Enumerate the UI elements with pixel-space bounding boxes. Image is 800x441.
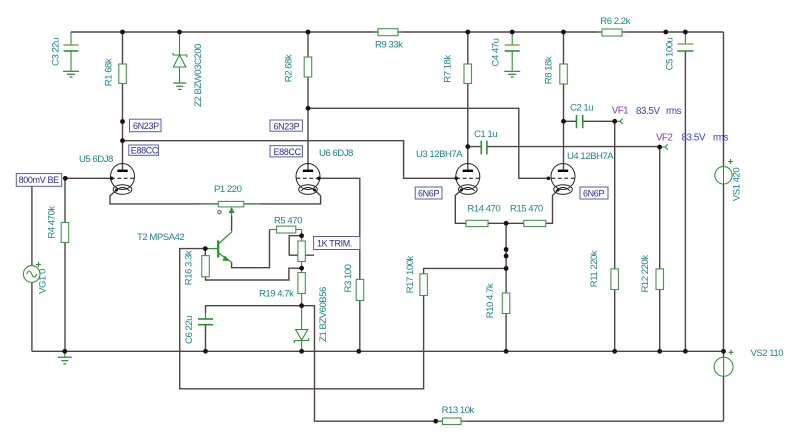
resistor R15 (524, 220, 546, 226)
box 6N6P (U4) (580, 187, 608, 199)
box E88CC (U5) (129, 145, 159, 156)
box E88CC (U6) (270, 146, 302, 157)
wire center node column to bottom rail (505, 223, 507, 351)
tube U4 12BH7A (551, 164, 575, 195)
svg-text:Z2 BZW03C200: Z2 BZW03C200 (193, 44, 204, 107)
svg-text:6N6P: 6N6P (583, 189, 604, 199)
trimmer 1K (298, 236, 305, 269)
source VS2 (714, 350, 733, 377)
resistor R1 (119, 64, 127, 84)
svg-text:R5 470: R5 470 (274, 216, 302, 227)
capacitor C5 (677, 32, 693, 51)
svg-text:R19 4.7k: R19 4.7k (259, 289, 294, 300)
resistor R9 (373, 29, 403, 36)
svg-text:R3 100: R3 100 (343, 264, 354, 292)
tube U6 6DJ8 (296, 164, 320, 195)
svg-text:R17 100k: R17 100k (405, 255, 416, 293)
wire T2 emitter to R5 left (232, 230, 270, 268)
svg-text:VF1: VF1 (612, 106, 628, 117)
resistor R4 (61, 223, 68, 243)
svg-text:VS1 420: VS1 420 (732, 168, 743, 201)
resistor R13 (438, 418, 467, 425)
svg-text:6N23P: 6N23P (133, 121, 159, 131)
resistor R6 (597, 29, 627, 36)
transistor T2 MPSA42 (205, 232, 231, 262)
wire R4 column (64, 178, 66, 351)
resistor R16 (202, 256, 210, 277)
svg-text:E88CC: E88CC (131, 146, 159, 156)
svg-text:VG1 0: VG1 0 (37, 269, 48, 294)
resistor R11 (611, 269, 619, 290)
tie VF2 (662, 144, 668, 149)
wire center node to R17 top (424, 268, 507, 273)
box 6N6P (U3) (415, 187, 442, 199)
wire U5 cathode to P1 left (110, 190, 218, 204)
svg-text:E88CC: E88CC (274, 147, 302, 157)
ground (C3) (63, 71, 79, 77)
svg-text:C3 22u: C3 22u (51, 38, 62, 66)
wire R1/U5 plate column (122, 32, 124, 171)
svg-text:VF2: VF2 (656, 133, 672, 144)
svg-text:800mV BE: 800mV BE (19, 175, 60, 185)
wire trimmer wiper tap (289, 236, 314, 256)
resistor R19 (298, 268, 305, 306)
svg-text:R8 18k: R8 18k (544, 56, 555, 84)
svg-text:VS2 110: VS2 110 (751, 348, 784, 359)
wire P1 wiper to T2 collector (231, 216, 233, 231)
wire Z1 node to R13 to VS2 minus loop (302, 306, 724, 422)
svg-text:R9 33k: R9 33k (375, 40, 403, 51)
wire R14 right to center node (488, 222, 524, 224)
tube U5 6DJ8 (111, 164, 135, 195)
wire VG1 column (31, 178, 33, 351)
capacitor C4 (505, 32, 520, 71)
wire R11 column: VF1 to bottom rail (614, 121, 616, 351)
svg-text:U6 6DJ8: U6 6DJ8 (319, 148, 353, 159)
svg-text:C5 100u: C5 100u (665, 37, 676, 70)
resistor R10 (502, 293, 510, 314)
resistor R7 (464, 64, 472, 84)
wire P1 right to U6 cathode (244, 190, 321, 204)
wire bottom 0V rail (32, 350, 724, 352)
wire R19-Z1 node to C6 top (206, 306, 302, 313)
svg-text:R6 2.2k: R6 2.2k (600, 16, 630, 27)
resistor R17 (420, 274, 428, 296)
wire T2 base to R17 bottom feedback loop (180, 249, 424, 389)
tie VF1 (617, 119, 623, 124)
zener Z2 (173, 32, 187, 83)
svg-text:R10 4.7k: R10 4.7k (485, 283, 496, 318)
wire R12 column: VF2 to bottom rail (659, 147, 661, 351)
wire C1 node row: U3 plate to VF2 (468, 146, 660, 148)
svg-text:R4 470k: R4 470k (46, 206, 57, 239)
svg-text:U5 6DJ8: U5 6DJ8 (79, 154, 113, 165)
capacitor C3 (64, 32, 79, 71)
svg-text:P1 220: P1 220 (214, 184, 242, 195)
wire R8/U4 plate column (563, 32, 565, 171)
wire U6 plate to U4 grid (308, 108, 548, 178)
svg-text:R14 470: R14 470 (467, 204, 500, 215)
source VG1 (23, 262, 41, 282)
wire R7/U3 plate column (467, 32, 469, 171)
wire U3 cathode to R14 (455, 190, 466, 223)
wire C5 column (684, 51, 686, 352)
svg-text:R2 68k: R2 68k (284, 54, 295, 82)
svg-text:83.5V: 83.5V (682, 133, 706, 144)
wire input node to U5 grid (65, 177, 111, 179)
resistor R14 (466, 220, 488, 226)
wire C6 bottom stem (205, 325, 207, 352)
box 6N23P (U6) (270, 120, 302, 132)
potentiometer P1 (199, 201, 261, 216)
ground (Z2) (173, 83, 186, 89)
resistor R8 (560, 64, 568, 84)
wire U6 grid to R3 column (319, 178, 360, 351)
svg-text:R7 18k: R7 18k (443, 55, 454, 83)
svg-text:C2 1u: C2 1u (570, 103, 593, 114)
wire C2 row: U4 plate to VF1 (564, 120, 615, 122)
svg-text:R13 10k: R13 10k (442, 405, 475, 416)
box 800mV BE (16, 174, 61, 187)
source VS1 (715, 159, 733, 184)
capacitor C2 (577, 115, 583, 128)
resistor R12 (656, 269, 664, 290)
box 1K TRIM. (314, 237, 360, 250)
ground (C4) (504, 71, 520, 77)
wire R2/U6 plate column (307, 32, 309, 171)
zener Z1 (294, 306, 308, 351)
wire R15 right to U4 cathode (546, 190, 558, 223)
svg-text:R12 220k: R12 220k (640, 255, 651, 293)
svg-text:R16 3.3k: R16 3.3k (184, 250, 195, 285)
tube U3 12BH7A (456, 164, 480, 195)
svg-text:6N23P: 6N23P (274, 122, 300, 132)
svg-text:T2 MPSA42: T2 MPSA42 (137, 232, 184, 243)
wire R16 bottom to trimmer bottom (206, 268, 302, 280)
svg-text:R1 68k: R1 68k (104, 58, 115, 86)
svg-text:C4 47u: C4 47u (490, 38, 501, 66)
svg-text:Z1 BZV60B56: Z1 BZV60B56 (318, 287, 329, 342)
svg-text:R15 470: R15 470 (510, 204, 543, 215)
svg-text:83.5V: 83.5V (636, 106, 660, 117)
wire top B+ rail (71, 31, 724, 33)
svg-text:U4 12BH7A: U4 12BH7A (567, 151, 614, 162)
capacitor C1 (481, 141, 487, 155)
box 6N23P (U5) (130, 119, 162, 132)
wire VS column (rail to VS1 to VS2) (723, 32, 725, 421)
svg-text:R11 220k: R11 220k (589, 250, 600, 287)
svg-text:6N6P: 6N6P (418, 189, 439, 199)
wire R16 top lead (204, 249, 206, 256)
resistor R5 (270, 226, 302, 236)
svg-text:rms: rms (713, 133, 729, 144)
svg-text:C1 1u: C1 1u (474, 129, 497, 140)
svg-text:1K TRIM.: 1K TRIM. (317, 239, 352, 249)
ground (main) (58, 351, 72, 364)
svg-text:rms: rms (666, 106, 682, 117)
resistor R3 (356, 279, 364, 300)
wire U5 plate to U3 grid (123, 141, 457, 179)
svg-text:U3 12BH7A: U3 12BH7A (416, 149, 463, 160)
resistor R2 (304, 57, 312, 77)
capacitor C6 (198, 313, 213, 325)
svg-text:C6 22u: C6 22u (184, 316, 195, 344)
